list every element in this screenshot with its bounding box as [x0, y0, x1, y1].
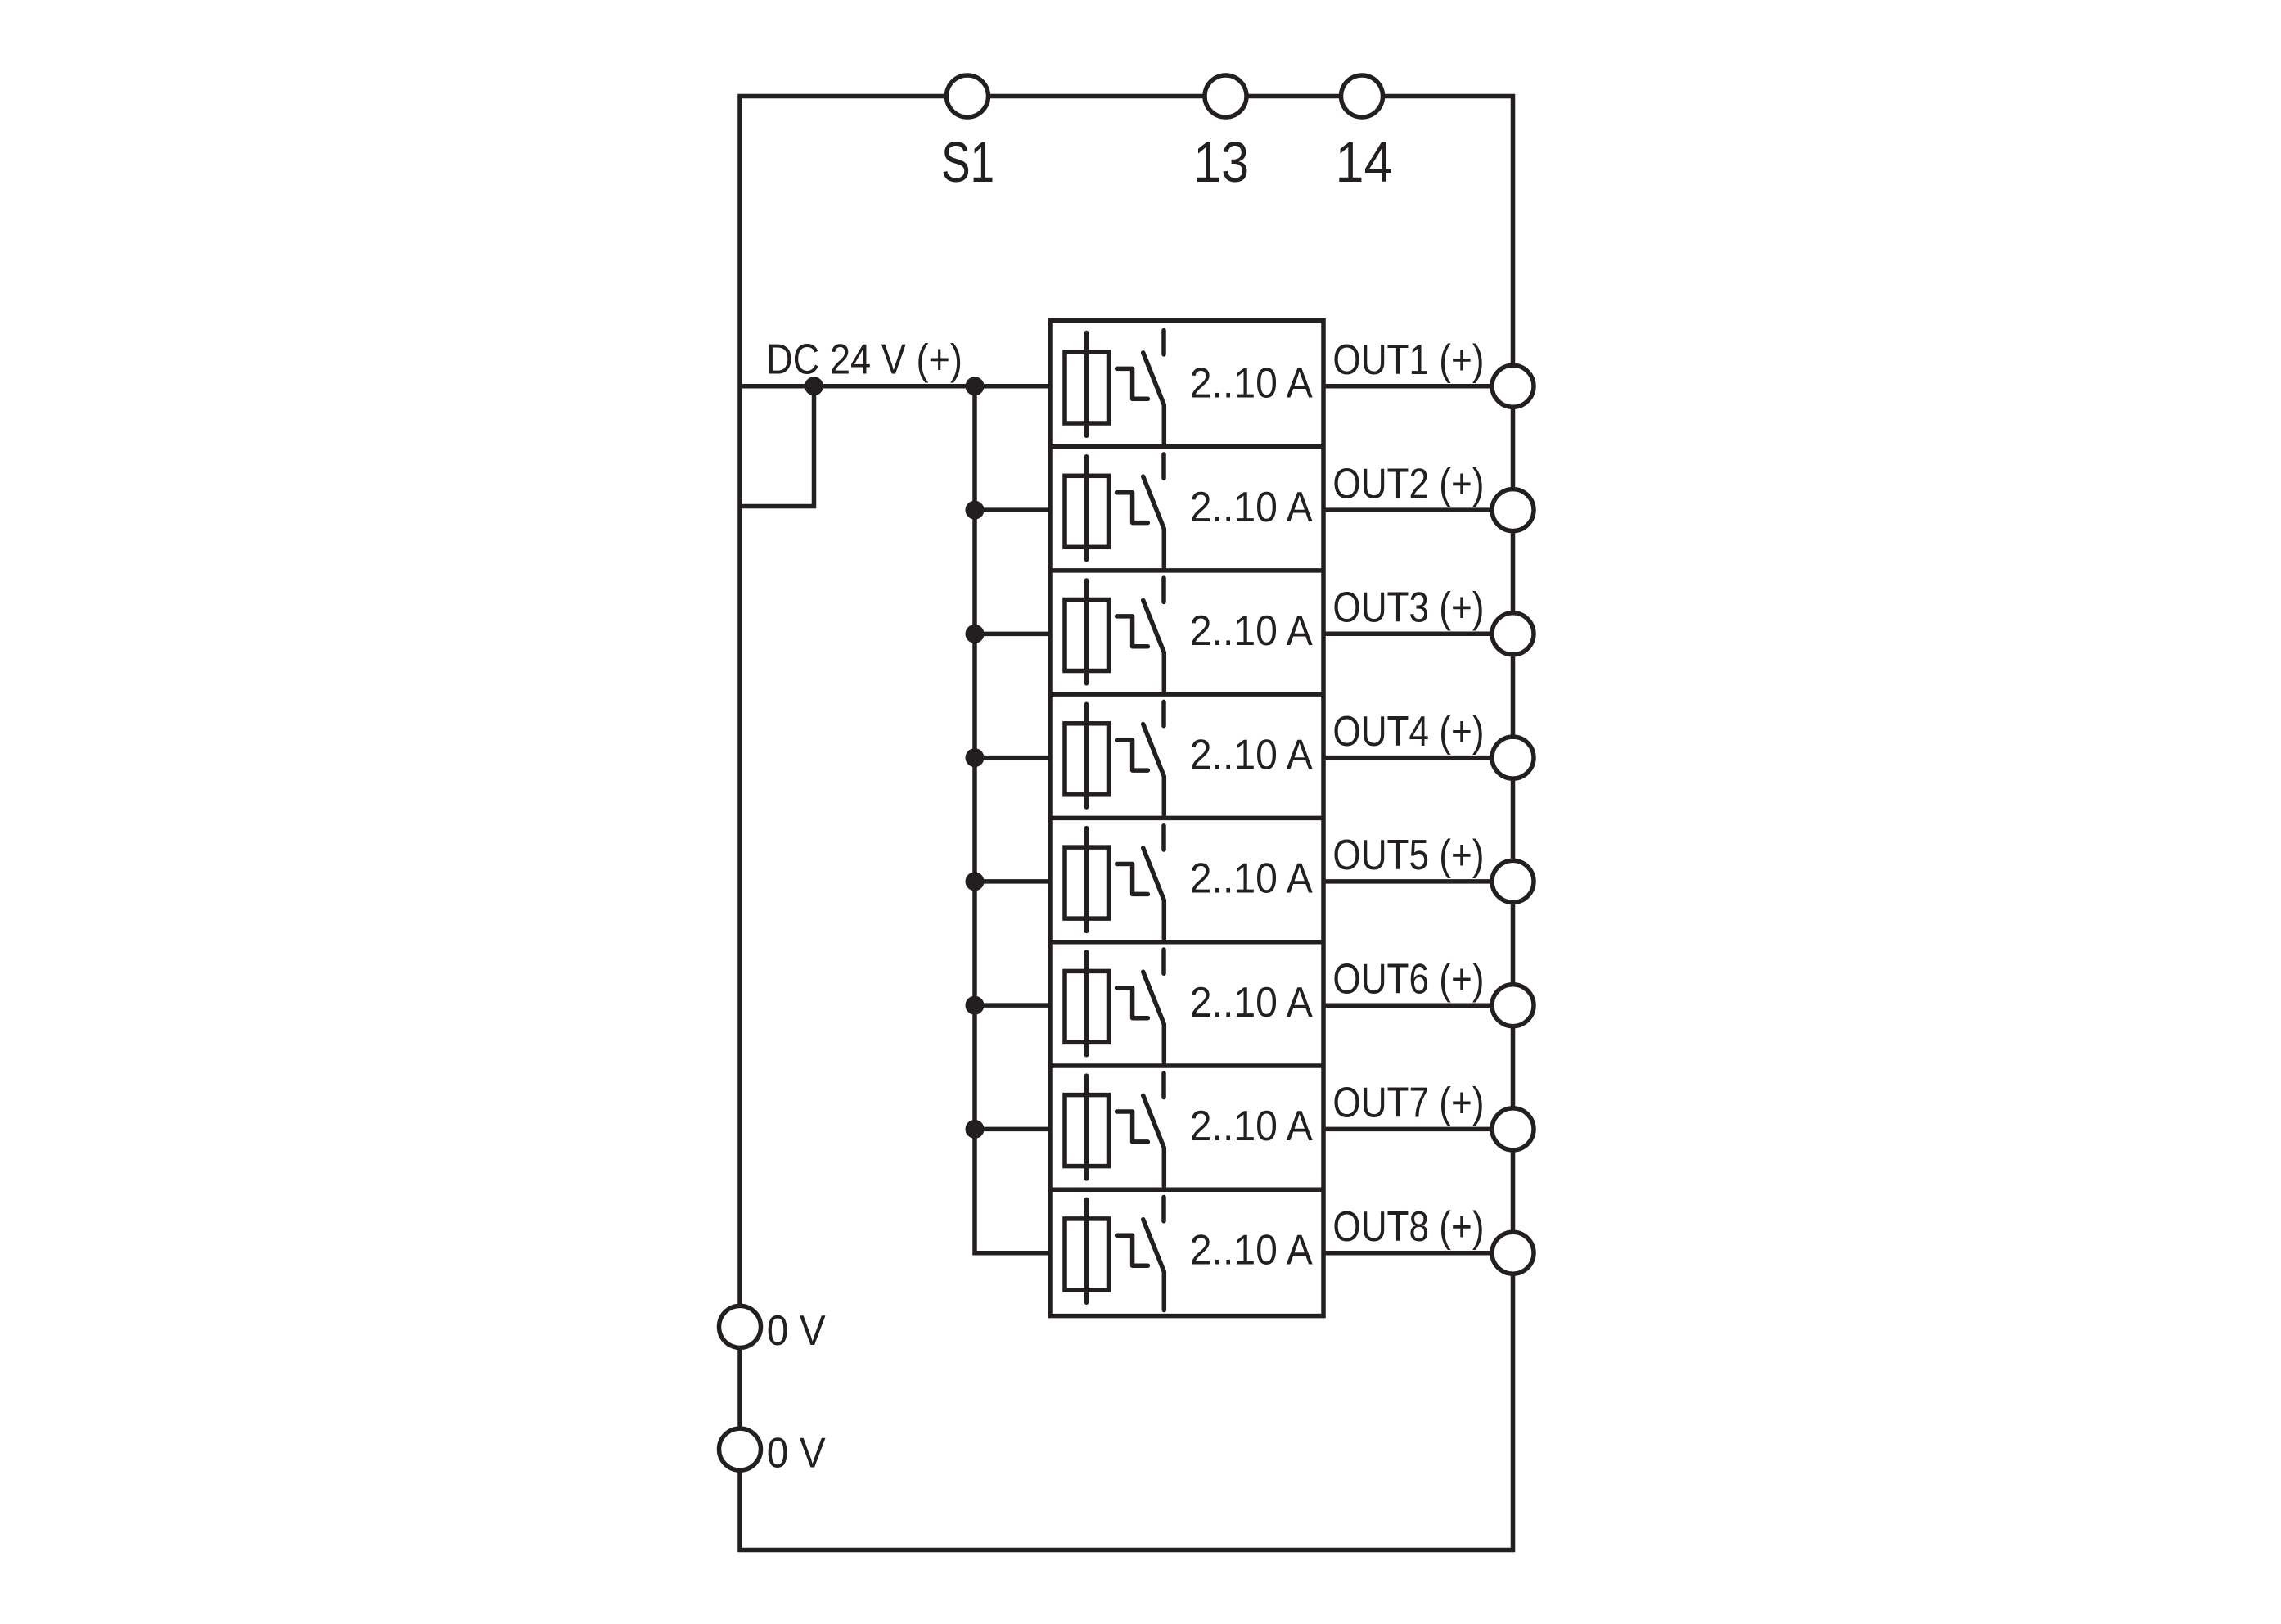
outer frame wire (module boundary)	[740, 97, 1513, 1550]
fuse F4 (channel 4)	[1065, 704, 1109, 807]
electronic switch Q7 (channel 7)	[1117, 1073, 1165, 1186]
wire output OUT5	[1323, 879, 1513, 884]
electronic switch Q1 (channel 1)	[1117, 331, 1165, 444]
svg-text:OUT2 (+): OUT2 (+)	[1332, 460, 1484, 508]
wire bus feed to channel 7	[975, 1127, 1050, 1132]
wire supply bus (vertical distribution to all 8 channels)	[975, 386, 1050, 1253]
wire output OUT2	[1323, 508, 1513, 512]
fuse F1 (channel 1)	[1065, 333, 1109, 436]
svg-text:0 V: 0 V	[767, 1430, 826, 1477]
wire bus feed to channel 6	[975, 1003, 1050, 1008]
fuse F8 (channel 8)	[1065, 1199, 1109, 1302]
terminal OUT2 (+)	[1492, 489, 1534, 531]
wire channel divider 5	[1050, 940, 1323, 945]
svg-text:OUT1 (+): OUT1 (+)	[1332, 336, 1484, 384]
terminal OUT5 (+)	[1492, 860, 1534, 902]
svg-text:OUT3 (+): OUT3 (+)	[1332, 584, 1484, 632]
svg-text:14: 14	[1336, 130, 1393, 194]
node junction dot bus row 3	[966, 625, 985, 643]
wire channel divider 2	[1050, 568, 1323, 573]
svg-text:2..10 A: 2..10 A	[1190, 360, 1313, 408]
electronic switch Q4 (channel 4)	[1117, 701, 1165, 814]
fuse F3 (channel 3)	[1065, 580, 1109, 683]
terminal OUT1 (+)	[1492, 365, 1534, 407]
svg-text:DC 24 V (+): DC 24 V (+)	[766, 336, 962, 384]
wire output OUT1	[1323, 384, 1513, 389]
node junction dot bus row 4	[966, 748, 985, 767]
fuse F2 (channel 2)	[1065, 457, 1109, 560]
fuse F5 (channel 5)	[1065, 828, 1109, 932]
wire channel divider 7	[1050, 1187, 1323, 1192]
terminal 0 V (upper)	[719, 1306, 761, 1347]
terminal OUT6 (+)	[1492, 985, 1534, 1026]
svg-text:2..10 A: 2..10 A	[1190, 607, 1313, 655]
terminal 13	[1205, 75, 1246, 117]
terminal S1	[947, 75, 989, 117]
fuse F7 (channel 7)	[1065, 1076, 1109, 1179]
electronic switch Q6 (channel 6)	[1117, 950, 1165, 1062]
terminal OUT7 (+)	[1492, 1108, 1534, 1150]
svg-text:S1: S1	[941, 130, 994, 194]
wire output OUT4	[1323, 756, 1513, 760]
svg-text:OUT4 (+): OUT4 (+)	[1332, 708, 1484, 756]
node junction dot bus top	[966, 377, 985, 395]
wire output OUT7	[1323, 1127, 1513, 1132]
wire channel divider 6	[1050, 1063, 1323, 1068]
svg-text:OUT8 (+): OUT8 (+)	[1332, 1203, 1484, 1251]
svg-text:2..10 A: 2..10 A	[1190, 484, 1313, 531]
node junction dot bus row 7	[966, 1120, 985, 1139]
svg-text:2..10 A: 2..10 A	[1190, 1227, 1313, 1274]
wire channel divider 4	[1050, 816, 1323, 821]
svg-text:OUT5 (+): OUT5 (+)	[1332, 832, 1484, 879]
wire bus feed to channel 3	[975, 632, 1050, 637]
wire output OUT8	[1323, 1251, 1513, 1256]
node junction dot bus row 6	[966, 996, 985, 1015]
wire output OUT3	[1323, 632, 1513, 637]
electronic switch Q5 (channel 5)	[1117, 826, 1165, 939]
wire bus feed to channel 2	[975, 508, 1050, 512]
node junction dot on DC 24 V wire	[805, 377, 823, 395]
wire channel divider 1	[1050, 444, 1323, 449]
wire DC 24 V (+) feed from left border to channel box	[740, 384, 1050, 389]
svg-text:2..10 A: 2..10 A	[1190, 979, 1313, 1026]
wire output OUT6	[1323, 1003, 1513, 1008]
svg-text:2..10 A: 2..10 A	[1190, 1103, 1313, 1150]
svg-text:2..10 A: 2..10 A	[1190, 855, 1313, 903]
wire bus feed to channel 5	[975, 879, 1050, 884]
wire bus feed to channel 4	[975, 756, 1050, 760]
electronic switch Q2 (channel 2)	[1117, 454, 1165, 567]
terminal OUT8 (+)	[1492, 1232, 1534, 1274]
svg-text:0 V: 0 V	[767, 1307, 826, 1355]
node junction dot bus row 5	[966, 872, 985, 891]
terminal 14	[1341, 75, 1383, 117]
electronic circuit breaker block outline (8 channels)	[1050, 321, 1323, 1316]
node junction dot bus row 2	[966, 501, 985, 520]
svg-text:OUT6 (+): OUT6 (+)	[1332, 955, 1484, 1003]
svg-text:2..10 A: 2..10 A	[1190, 731, 1313, 778]
wire input stub (vertical + horizontal to left border)	[740, 386, 814, 507]
svg-text:13: 13	[1193, 130, 1249, 194]
terminal 0 V (lower)	[719, 1428, 761, 1470]
fuse F6 (channel 6)	[1065, 952, 1109, 1055]
electronic switch Q8 (channel 8)	[1117, 1198, 1165, 1310]
terminal OUT3 (+)	[1492, 613, 1534, 655]
electronic switch Q3 (channel 3)	[1117, 578, 1165, 691]
wire channel divider 3	[1050, 692, 1323, 697]
svg-text:OUT7 (+): OUT7 (+)	[1332, 1080, 1484, 1127]
terminal OUT4 (+)	[1492, 737, 1534, 778]
